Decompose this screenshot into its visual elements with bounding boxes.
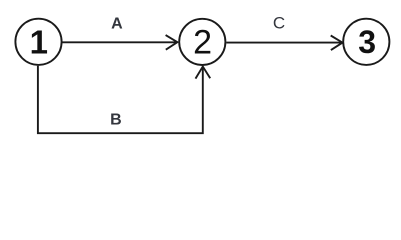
svg-text:2: 2 (193, 23, 212, 61)
svg-text:3: 3 (358, 24, 376, 60)
wire C shaft (226, 42, 342, 44)
wire B: down from node 1, across bottom, up into node 2 (38, 66, 203, 133)
svg-text:C: C (273, 13, 285, 32)
node 1 circle (15, 19, 61, 65)
node 2 circle (179, 19, 225, 65)
arrowhead A (166, 35, 178, 50)
svg-text:1: 1 (30, 23, 48, 60)
arrowhead C (331, 36, 343, 51)
svg-text:A: A (111, 15, 123, 32)
svg-text:B: B (110, 111, 122, 128)
wire A shaft (62, 41, 177, 43)
arrowhead B (pointing up) (196, 67, 211, 79)
node 3 circle (343, 19, 389, 65)
